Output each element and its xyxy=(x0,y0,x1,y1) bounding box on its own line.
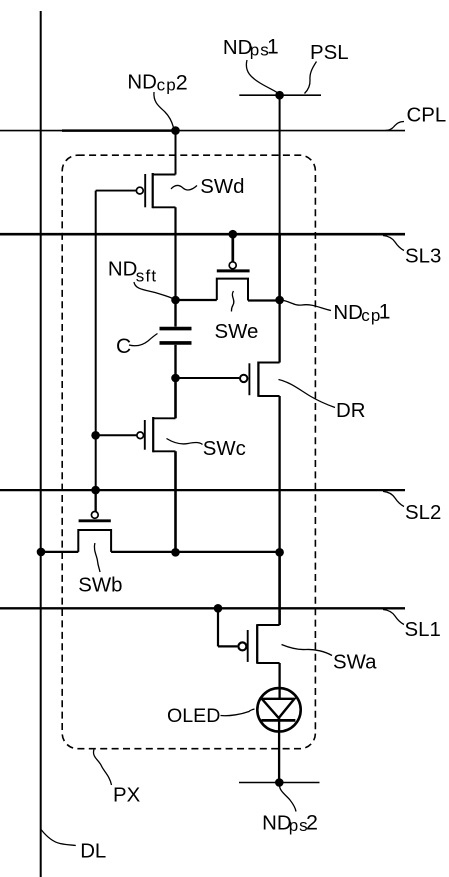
svg-text:C: C xyxy=(116,335,131,358)
svg-text:SWe: SWe xyxy=(215,321,259,343)
svg-text:2: 2 xyxy=(176,70,188,94)
svg-text:ND: ND xyxy=(223,37,252,59)
svg-text:PX: PX xyxy=(113,784,141,806)
svg-text:PSL: PSL xyxy=(310,42,349,64)
svg-text:SWd: SWd xyxy=(200,176,244,198)
svg-text:SL2: SL2 xyxy=(405,502,441,524)
svg-text:SWc: SWc xyxy=(203,438,246,460)
svg-text:cp: cp xyxy=(157,75,177,94)
svg-text:DL: DL xyxy=(80,841,106,863)
svg-text:SL3: SL3 xyxy=(405,246,441,268)
svg-text:2: 2 xyxy=(306,810,318,834)
svg-text:1: 1 xyxy=(379,301,391,324)
svg-text:ND: ND xyxy=(127,72,156,94)
svg-text:SWa: SWa xyxy=(333,652,377,674)
svg-text:ND: ND xyxy=(108,258,137,280)
svg-text:DR: DR xyxy=(336,400,365,422)
svg-text:ND: ND xyxy=(262,812,291,834)
svg-text:SWb: SWb xyxy=(78,575,122,597)
svg-text:CPL: CPL xyxy=(407,104,447,126)
svg-text:sft: sft xyxy=(136,266,158,285)
svg-text:ND: ND xyxy=(333,302,362,324)
svg-text:OLED: OLED xyxy=(167,705,220,727)
svg-text:SL1: SL1 xyxy=(405,619,441,641)
svg-text:1: 1 xyxy=(267,36,279,59)
